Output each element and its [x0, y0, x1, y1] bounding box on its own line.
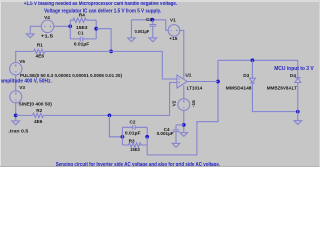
wire R2 to op-amp plus input riser — [43, 83, 177, 116]
svg-text:PULSE(0 50 0.3 0.00001 0.00001: PULSE(0 50 0.3 0.00001 0.00001 0.0005 0.… — [20, 73, 122, 78]
resistor R3 bottom edge — [122, 143, 147, 147]
svg-text:LT1014: LT1014 — [187, 85, 203, 90]
svg-text:4E6: 4E6 — [34, 119, 43, 124]
node dot C3 tap — [151, 18, 155, 22]
wire V4 right lead to node — [54, 25, 71, 27]
wire V5 bottom to V3 top — [15, 75, 17, 91]
svg-text:15E3: 15E3 — [76, 25, 88, 30]
svg-text:R3: R3 — [129, 138, 135, 143]
ground G5 under V2 — [180, 133, 188, 137]
wire C2R3 box right edge — [146, 127, 148, 137]
svg-text:MCU input to 3 V: MCU input to 3 V — [274, 66, 314, 72]
wire V1 right to op-amp V+ — [180, 30, 184, 78]
wire V5 top to R1 — [16, 51, 34, 62]
svg-text:V3: V3 — [19, 85, 25, 90]
svg-text:0.001µF: 0.001µF — [135, 29, 150, 34]
node dot D3 D4 common — [296, 110, 300, 114]
wire D4 top lead — [297, 60, 299, 77]
ground G1 under V4 left wire — [26, 34, 34, 38]
svg-text:C3: C3 — [146, 17, 152, 22]
ground G4 under V3 — [12, 121, 20, 125]
wire C2R3 box left edge — [121, 127, 123, 145]
wire R2 row left — [16, 114, 33, 116]
svg-text:D3: D3 — [243, 73, 249, 78]
wire top clamp rail — [218, 59, 298, 61]
svg-text:0.01µF: 0.01µF — [125, 131, 141, 136]
node dot R4C1 left — [68, 24, 72, 28]
wire R1 to corner and op-amp minus input — [45, 51, 177, 79]
svg-text:R1: R1 — [37, 42, 43, 47]
diode D4 zener — [295, 78, 301, 83]
node dot D3 tap — [251, 58, 255, 62]
svg-text:15E3: 15E3 — [130, 147, 140, 152]
wire ground drop at rail start — [130, 20, 132, 38]
wire V4 left lead — [30, 25, 41, 27]
voltage source V3 — [10, 91, 22, 103]
wire op-amp output — [187, 81, 218, 83]
diode D3 — [249, 78, 255, 83]
svg-text:R2: R2 — [36, 108, 42, 113]
svg-text:+1.5 V biasing needed as Micro: +1.5 V biasing needed as Microprocessor … — [24, 1, 178, 7]
svg-text:SINE(0 400 50): SINE(0 400 50) — [19, 101, 53, 106]
wire C4 tap — [176, 124, 184, 126]
svg-text:-15: -15 — [191, 100, 196, 107]
wire V3 bottom to node — [15, 103, 17, 121]
node dot C2R3 left — [121, 135, 125, 139]
wire ground drop left of V4 — [29, 26, 31, 34]
window border highlight — [0, 0, 320, 167]
ground G6 under C4 — [172, 143, 180, 147]
svg-text:.tran 0.5: .tran 0.5 — [8, 128, 28, 133]
svg-text:0.001µF: 0.001µF — [157, 131, 174, 136]
svg-text:U1: U1 — [185, 73, 191, 78]
resistor R4 top edge — [70, 18, 96, 22]
capacitor C2 top edge — [122, 125, 147, 130]
svg-text:V5: V5 — [19, 59, 25, 64]
svg-text:R4: R4 — [79, 12, 85, 17]
svg-text:D4: D4 — [290, 73, 296, 78]
node dot C2R3 right — [145, 135, 149, 139]
svg-text:V1: V1 — [170, 17, 176, 22]
svg-text:V4: V4 — [44, 15, 50, 20]
voltage source V4 — [41, 20, 54, 33]
capacitor C1 bottom edge — [70, 37, 96, 42]
wire C2R3 right node down along bottom rail up to output junction — [147, 60, 218, 155]
wire op-amp V- to V2 — [183, 85, 185, 98]
wire D3 bottom to common node — [252, 83, 297, 112]
svg-text:0.01µF: 0.01µF — [74, 42, 90, 47]
node dot on R1 row — [109, 50, 113, 54]
svg-text:C2: C2 — [130, 119, 136, 124]
resistor R1 — [34, 49, 45, 53]
wire D4 bottom lead — [297, 83, 299, 121]
capacitor C3 — [150, 20, 157, 38]
wire drop to C2R3 left node — [109, 115, 122, 136]
svg-text:C1: C1 — [78, 31, 84, 36]
wire R4C1 box left edge — [69, 20, 71, 39]
op-amp U1 — [177, 75, 187, 88]
capacitor C4 — [173, 125, 180, 143]
svg-text:+15: +15 — [169, 36, 177, 41]
ground G7 under D4 — [294, 121, 302, 125]
svg-text:V2: V2 — [172, 100, 177, 106]
node dot R4C1 right — [94, 27, 98, 31]
svg-text:amplitude 400 V, 50Hz.: amplitude 400 V, 50Hz. — [0, 79, 52, 85]
wire C3 top rail — [131, 19, 165, 21]
voltage source V2 — [178, 99, 190, 111]
node dot R2 row drop — [108, 114, 112, 118]
wire V2 bottom to ground node — [183, 111, 185, 133]
node dot output junction — [216, 80, 220, 84]
ground G3 under C3 — [149, 38, 157, 42]
wire rail corner to V1 left — [166, 20, 168, 31]
voltage source V1 — [168, 25, 180, 37]
svg-text:4E6: 4E6 — [36, 54, 45, 59]
svg-text:MMSD4148: MMSD4148 — [226, 85, 252, 90]
voltage source V5 — [10, 62, 22, 74]
svg-text:MMBZ6V8ALT: MMBZ6V8ALT — [267, 86, 297, 91]
resistor R2 — [33, 113, 44, 117]
svg-text:+1.5: +1.5 — [41, 34, 54, 39]
svg-text:Voltage regulator IC can deliv: Voltage regulator IC can deliver 1.5 V f… — [44, 8, 162, 14]
wire D3 top lead — [251, 60, 253, 78]
ground G2 at rail start — [128, 38, 136, 42]
node dot V2 ground node — [182, 123, 186, 127]
wire from R4C1 right node to drop — [96, 29, 111, 52]
node dot V3 bottom — [14, 114, 18, 118]
wire R4C1 box right edge — [95, 20, 97, 39]
